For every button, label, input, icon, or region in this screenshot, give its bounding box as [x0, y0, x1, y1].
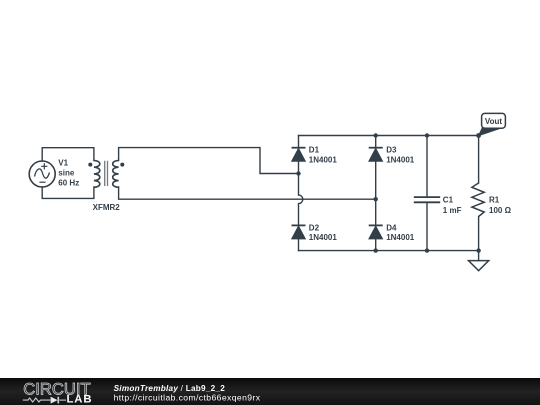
svg-text:V1: V1 — [58, 158, 68, 167]
svg-text:60 Hz: 60 Hz — [58, 178, 79, 187]
svg-text:SimonTremblay / Lab9_2_2: SimonTremblay / Lab9_2_2 — [114, 384, 226, 393]
svg-text:LAB: LAB — [67, 393, 93, 405]
svg-text:1 mF: 1 mF — [443, 206, 462, 215]
svg-text:D4: D4 — [386, 223, 397, 232]
svg-text:D1: D1 — [309, 146, 320, 155]
svg-text:1N4001: 1N4001 — [386, 156, 415, 165]
svg-text:XFMR2: XFMR2 — [93, 203, 121, 212]
svg-text:1N4001: 1N4001 — [309, 233, 338, 242]
svg-text:http://circuitlab.com/ctb66exq: http://circuitlab.com/ctb66exqen9rx — [114, 393, 261, 403]
svg-text:1N4001: 1N4001 — [386, 233, 415, 242]
svg-text:Vout: Vout — [485, 117, 503, 126]
svg-text:1N4001: 1N4001 — [309, 156, 338, 165]
svg-text:sine: sine — [58, 168, 75, 177]
svg-text:D2: D2 — [309, 223, 320, 232]
svg-text:D3: D3 — [386, 146, 397, 155]
svg-text:R1: R1 — [489, 195, 500, 204]
svg-text:C1: C1 — [443, 195, 454, 204]
svg-text:100 Ω: 100 Ω — [489, 206, 512, 215]
